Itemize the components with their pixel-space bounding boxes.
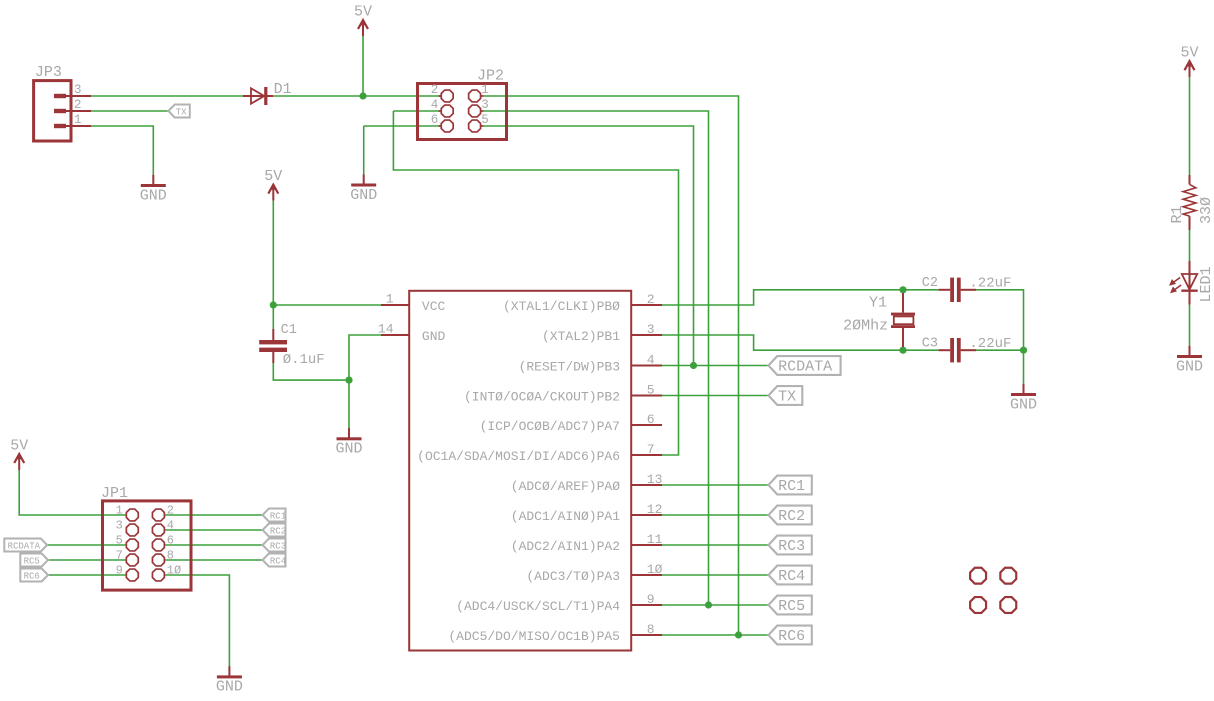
svg-text:1: 1 <box>386 292 394 307</box>
svg-text:12: 12 <box>647 502 663 517</box>
svg-text:5V: 5V <box>10 438 28 455</box>
svg-text:8: 8 <box>167 549 174 563</box>
svg-text:5: 5 <box>647 383 655 398</box>
svg-text:(RESET/DW)PB3: (RESET/DW)PB3 <box>519 360 620 375</box>
svg-text:.22uF: .22uF <box>969 275 1011 291</box>
svg-text:5V: 5V <box>264 168 282 185</box>
svg-text:RC1: RC1 <box>778 478 805 495</box>
svg-text:1Ø: 1Ø <box>647 562 663 577</box>
svg-text:(ADC3/TØ)PA3: (ADC3/TØ)PA3 <box>526 569 620 584</box>
svg-text:GND: GND <box>335 441 362 458</box>
svg-text:C3: C3 <box>922 336 938 351</box>
svg-text:9: 9 <box>647 592 655 607</box>
svg-text:2: 2 <box>647 292 655 307</box>
svg-text:GND: GND <box>422 329 446 344</box>
svg-text:RC3: RC3 <box>270 541 286 551</box>
svg-text:RC3: RC3 <box>778 538 805 555</box>
svg-text:11: 11 <box>647 532 663 547</box>
svg-text:GND: GND <box>140 187 167 204</box>
svg-text:3: 3 <box>116 519 123 533</box>
svg-text:RC6: RC6 <box>24 571 40 581</box>
svg-text:8: 8 <box>647 622 655 637</box>
svg-text:Ø.1uF: Ø.1uF <box>283 352 325 368</box>
svg-text:6: 6 <box>647 412 655 427</box>
svg-text:GND: GND <box>350 187 377 204</box>
svg-text:(ADC1/AINØ)PA1: (ADC1/AINØ)PA1 <box>511 509 620 524</box>
svg-text:13: 13 <box>647 472 663 487</box>
svg-text:R1: R1 <box>1169 205 1186 223</box>
svg-text:RCDATA: RCDATA <box>778 359 832 376</box>
svg-text:C2: C2 <box>922 276 938 291</box>
svg-text:33Ø: 33Ø <box>1198 197 1214 224</box>
svg-text:4: 4 <box>431 98 439 112</box>
svg-text:2: 2 <box>74 98 82 112</box>
svg-text:9: 9 <box>116 564 123 578</box>
svg-text:3: 3 <box>647 322 655 337</box>
svg-text:(ICP/OCØB/ADC7)PA7: (ICP/OCØB/ADC7)PA7 <box>480 419 620 434</box>
svg-text:1: 1 <box>116 504 123 518</box>
svg-text:GND: GND <box>1010 396 1037 413</box>
svg-text:RC2: RC2 <box>778 508 805 525</box>
svg-text:(OC1A/SDA/MOSI/DI/ADC6)PA6: (OC1A/SDA/MOSI/DI/ADC6)PA6 <box>417 449 620 464</box>
svg-text:5V: 5V <box>1180 45 1198 62</box>
svg-text:GND: GND <box>1176 358 1203 375</box>
svg-text:14: 14 <box>378 322 394 337</box>
svg-text:1Ø: 1Ø <box>167 564 181 578</box>
svg-text:7: 7 <box>116 549 123 563</box>
svg-text:(ADCØ/AREF)PAØ: (ADCØ/AREF)PAØ <box>511 479 620 494</box>
svg-text:3: 3 <box>481 98 489 112</box>
svg-text:Y1: Y1 <box>869 294 887 311</box>
svg-text:6: 6 <box>167 534 174 548</box>
svg-text:1: 1 <box>481 83 489 97</box>
svg-text:.22uF: .22uF <box>969 336 1011 352</box>
svg-text:RC4: RC4 <box>778 568 805 585</box>
svg-text:RCDATA: RCDATA <box>8 541 41 551</box>
svg-text:GND: GND <box>216 679 243 696</box>
svg-text:5V: 5V <box>354 4 372 21</box>
svg-text:C1: C1 <box>281 323 297 338</box>
svg-text:3: 3 <box>74 83 82 97</box>
svg-text:(INTØ/OCØA/CKOUT)PB2: (INTØ/OCØA/CKOUT)PB2 <box>464 390 620 405</box>
svg-text:JP3: JP3 <box>35 64 62 81</box>
svg-text:(ADC5/DO/MISO/OC1B)PA5: (ADC5/DO/MISO/OC1B)PA5 <box>448 629 620 644</box>
svg-text:RC6: RC6 <box>778 628 805 645</box>
svg-text:RC1: RC1 <box>270 511 286 521</box>
svg-text:D1: D1 <box>274 81 292 98</box>
svg-text:5: 5 <box>116 534 123 548</box>
svg-text:5: 5 <box>481 113 489 127</box>
svg-text:7: 7 <box>647 442 655 457</box>
svg-text:(XTAL2)PB1: (XTAL2)PB1 <box>542 329 620 344</box>
svg-text:2: 2 <box>167 504 174 518</box>
svg-text:(ADC2/AIN1)PA2: (ADC2/AIN1)PA2 <box>511 539 620 554</box>
svg-text:JP1: JP1 <box>101 485 128 502</box>
svg-text:LED1: LED1 <box>1198 266 1214 302</box>
svg-text:4: 4 <box>167 519 174 533</box>
svg-text:VCC: VCC <box>422 299 446 314</box>
svg-text:RC5: RC5 <box>24 556 40 566</box>
svg-text:(XTAL1/CLKI)PBØ: (XTAL1/CLKI)PBØ <box>503 299 620 314</box>
svg-text:2ØMhz: 2ØMhz <box>843 318 888 335</box>
svg-text:TX: TX <box>176 107 187 117</box>
svg-text:RC4: RC4 <box>270 556 286 566</box>
svg-text:RC5: RC5 <box>778 598 805 615</box>
svg-text:4: 4 <box>647 353 655 368</box>
svg-text:(ADC4/USCK/SCL/T1)PA4: (ADC4/USCK/SCL/T1)PA4 <box>456 599 620 614</box>
svg-text:6: 6 <box>431 113 439 127</box>
svg-text:2: 2 <box>431 83 439 97</box>
svg-text:RC2: RC2 <box>270 526 286 536</box>
svg-text:1: 1 <box>74 113 82 127</box>
svg-text:TX: TX <box>778 389 796 406</box>
svg-text:JP2: JP2 <box>477 67 504 84</box>
